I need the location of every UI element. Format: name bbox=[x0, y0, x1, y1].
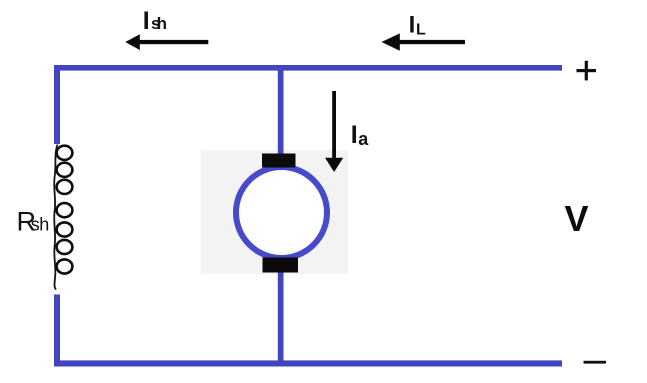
arrow I_sh head bbox=[125, 34, 140, 50]
coil R_sh loop 2 bbox=[57, 163, 73, 177]
wire: top horizontal bus bbox=[54, 65, 562, 71]
brush (bottom) bbox=[263, 258, 299, 273]
wire: middle vertical lower (from armature bottom brush) bbox=[278, 270, 284, 367]
svg-text:sh: sh bbox=[31, 215, 50, 235]
label I_a bbox=[351, 121, 369, 149]
coil R_sh loop 3 bbox=[57, 180, 73, 194]
coil R_sh loop 5 bbox=[57, 222, 73, 236]
svg-text:I: I bbox=[409, 12, 416, 39]
wire: bottom horizontal bus bbox=[54, 360, 562, 366]
svg-text:I: I bbox=[351, 121, 358, 149]
wire: left vertical upper segment bbox=[54, 65, 60, 144]
label R_sh bbox=[17, 206, 50, 236]
arrow I_sh shaft bbox=[135, 40, 208, 44]
terminal - sign bbox=[584, 361, 607, 364]
svg-text:L: L bbox=[416, 21, 426, 38]
label I_sh bbox=[143, 7, 167, 35]
coil R_sh left connecting squiggle bbox=[54, 145, 57, 290]
label I_L bbox=[409, 12, 426, 39]
brush (top) bbox=[262, 154, 296, 168]
coil R_sh loop 1 bbox=[57, 146, 73, 160]
arrow I_a head bbox=[325, 158, 343, 172]
svg-text:I: I bbox=[143, 7, 150, 35]
svg-text:sh: sh bbox=[151, 14, 167, 33]
arrow I_a shaft bbox=[332, 91, 336, 160]
arrow I_L head bbox=[382, 33, 400, 50]
terminal + sign bbox=[577, 61, 597, 81]
coil R_sh loop 4 bbox=[57, 203, 73, 217]
wire: middle vertical upper (to armature top brush) bbox=[278, 65, 284, 155]
wire: left vertical lower segment bbox=[54, 295, 60, 367]
svg-text:V: V bbox=[565, 198, 589, 239]
motor armature M (circle) bbox=[236, 167, 327, 258]
coil R_sh loop 7 bbox=[57, 259, 73, 273]
arrow I_L shaft bbox=[392, 40, 465, 44]
motor background plate bbox=[201, 150, 348, 274]
svg-text:a: a bbox=[358, 129, 369, 149]
coil R_sh loop 6 bbox=[57, 240, 73, 254]
